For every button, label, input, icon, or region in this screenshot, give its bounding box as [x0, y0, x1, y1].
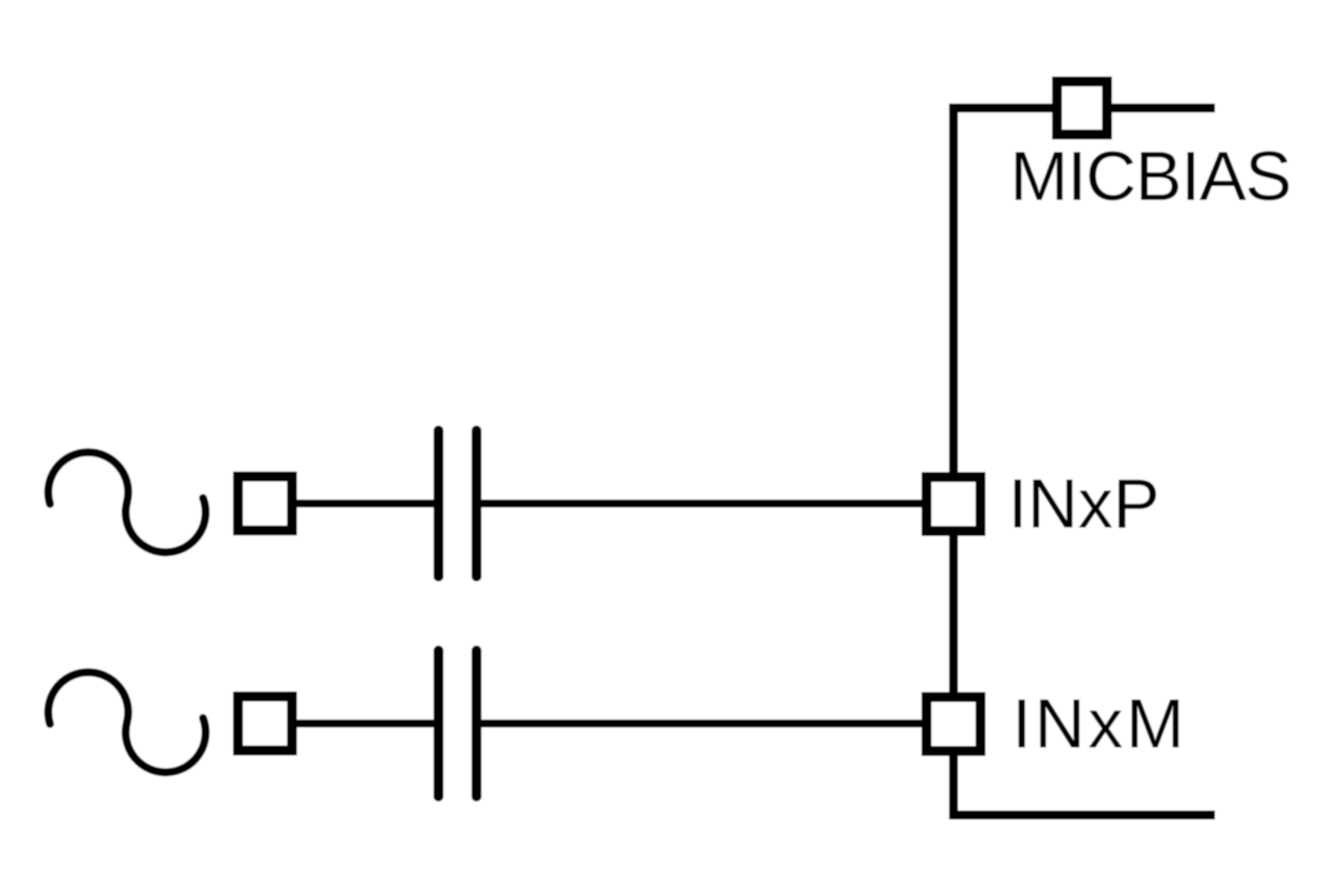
wire: capacitor C1 to INxP node: [478, 500, 922, 508]
terminal: MICBIAS pin square: [1057, 82, 1107, 135]
svg-text:MICBIAS: MICBIAS: [1010, 137, 1291, 215]
wire: source 2 to capacitor C2: [296, 720, 437, 728]
terminal: source 2 port square: [238, 697, 292, 751]
capacitor C2 plate left: [434, 651, 444, 797]
AC source V2 (sine symbol): [48, 672, 205, 772]
terminal: INxP pin square: [927, 477, 981, 531]
wire: source 1 to capacitor C1: [296, 500, 437, 508]
terminal: source 1 port square: [238, 477, 292, 531]
capacitor C1 plate left: [434, 431, 444, 577]
svg-text:INxP: INxP: [1008, 465, 1160, 543]
svg-text:INxM: INxM: [1012, 685, 1187, 763]
wire: MICBIAS rail (top horizontal, main vertical, bottom horizontal): [954, 108, 1216, 815]
wire: capacitor C2 to INxM node: [478, 720, 922, 728]
AC source V1 (sine symbol): [48, 452, 205, 552]
terminal: INxM pin square: [927, 697, 981, 751]
capacitor C1 plate right: [472, 431, 482, 577]
capacitor C2 plate right: [472, 651, 482, 797]
